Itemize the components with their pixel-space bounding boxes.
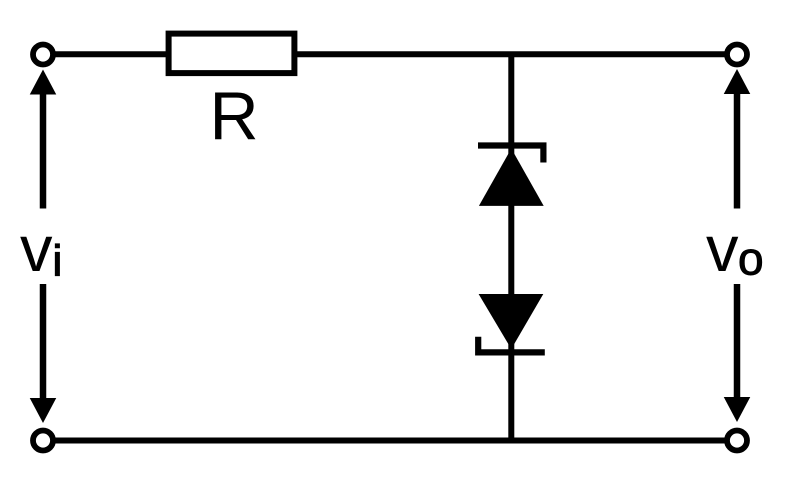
zener diode D2 (lower, cathode down) [478,294,545,352]
svg-text:i: i [53,237,63,286]
terminal: input top (node vi+) [33,45,53,65]
svg-text:o: o [738,232,764,284]
voltage arrow vo (right, double-headed) [724,69,751,422]
wire: bottom rail [43,438,737,444]
svg-text:v: v [20,212,53,285]
resistor R [169,34,295,74]
wire: middle shunt branch [508,54,514,440]
terminal: output bottom (node vo-) [727,431,747,451]
zener diode D1 (upper, cathode up) [478,146,544,206]
svg-text:R: R [209,79,258,155]
terminal: output top (node vo+) [727,45,747,65]
svg-text:v: v [706,212,739,285]
terminal: input bottom (node vi-) [33,431,53,451]
wire: top rail from input terminal to output terminal [43,51,737,57]
voltage arrow vi (left, double-headed) [30,70,57,424]
